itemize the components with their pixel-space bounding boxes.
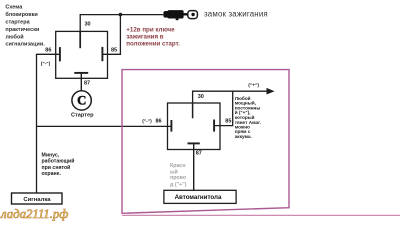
svg-text:замок зажигания: замок зажигания: [204, 9, 268, 18]
svg-text:Красн: Красн: [170, 163, 186, 169]
pink bottom line (cropped second frame): [122, 214, 400, 216]
svg-text:блокировки: блокировки: [5, 11, 37, 18]
svg-text:C: C: [77, 94, 86, 108]
svg-text:86: 86: [45, 48, 51, 54]
svg-text:30: 30: [198, 94, 204, 100]
svg-text:работающий: работающий: [42, 158, 75, 165]
ignition connector crimp body: [163, 10, 183, 20]
svg-text:прово: прово: [170, 175, 187, 181]
relay K2 pin 85 contact: [213, 120, 215, 132]
relay K2 box: [168, 103, 221, 150]
wire relay1 pin86 left then down to alarm box: [37, 54, 60, 193]
wire branch down to relay2 pin 85: [214, 91, 233, 125]
starter motor circle: [72, 91, 91, 110]
svg-text:30: 30: [85, 21, 91, 27]
wire +12V top: relay1 pin30 up and right to ignition connector: [80, 15, 163, 32]
relay K1 pin 87 contact: [74, 72, 88, 74]
svg-text:практически: практически: [5, 27, 39, 33]
svg-text:охране.: охране.: [42, 171, 62, 177]
svg-text:Автомагнитола: Автомагнитола: [175, 194, 222, 201]
svg-text:87: 87: [196, 151, 202, 157]
svg-text:сигнализации.: сигнализации.: [5, 42, 45, 48]
note red wire plus (grey): [170, 163, 187, 188]
svg-text:Сигналка: Сигналка: [23, 197, 51, 203]
note minus from alarm: [42, 153, 75, 177]
ignition ring terminal: [188, 11, 198, 19]
node junction on +12V wire: [119, 13, 123, 17]
svg-text:й ("+"),: й ("+"),: [235, 109, 251, 115]
note +12v at ignition key: [126, 26, 180, 47]
svg-text:любой: любой: [5, 33, 23, 40]
relay K2 pin 86 contact: [170, 120, 172, 132]
ignition terminal hole: [191, 13, 194, 16]
svg-text:86: 86: [156, 119, 162, 125]
relay K1 box: [56, 31, 108, 78]
svg-text:("+"): ("+"): [248, 82, 259, 88]
svg-text:положении старт.: положении старт.: [126, 41, 180, 48]
svg-text:стартера: стартера: [5, 20, 30, 26]
svg-text:+12в при ключе: +12в при ключе: [126, 26, 175, 33]
svg-text:87: 87: [84, 81, 90, 87]
alarm box (Сигналка): [12, 193, 63, 204]
wire relay2 pin30 up and right to plus arrow: [193, 91, 268, 103]
svg-text:Стартер: Стартер: [71, 113, 94, 119]
wire relay1 pin87 to starter: [80, 73, 82, 91]
svg-text:д ("+"): д ("+"): [170, 182, 187, 188]
relay K1 pin 86 contact: [59, 47, 61, 61]
relay K2 pin 87 contact: [188, 142, 200, 144]
arrowhead plus supply: [267, 88, 275, 95]
relay K1 pin 30 contact: [79, 31, 81, 48]
pink example frame: [122, 70, 289, 214]
note constant plus supply: [235, 95, 261, 139]
svg-text:Минус,: Минус,: [42, 153, 60, 159]
wire junction down to relay1 pin 85: [102, 15, 120, 55]
svg-text:("-"): ("-"): [41, 61, 51, 67]
svg-text:при снятой: при снятой: [42, 164, 71, 171]
svg-text:85: 85: [225, 119, 231, 125]
relay K2 pin 30 contact: [192, 103, 194, 118]
svg-text:лада2111.рф: лада2111.рф: [0, 207, 68, 221]
wire relay2 pin87 down to car stereo: [193, 143, 195, 190]
relay K1 pin 85 contact: [101, 47, 103, 61]
ignition connector stub wire: [184, 13, 189, 15]
caption scheme description: [5, 5, 45, 48]
svg-text:Схема: Схема: [5, 5, 23, 11]
svg-text:("-"): ("-"): [142, 119, 152, 125]
car stereo box (Автомагнитола): [164, 190, 236, 203]
svg-text:аккума.: аккума.: [235, 134, 252, 139]
svg-text:85: 85: [111, 47, 117, 53]
svg-text:зажигания в: зажигания в: [126, 33, 164, 40]
wire alarm minus to relay2 pin 86: [37, 125, 172, 127]
